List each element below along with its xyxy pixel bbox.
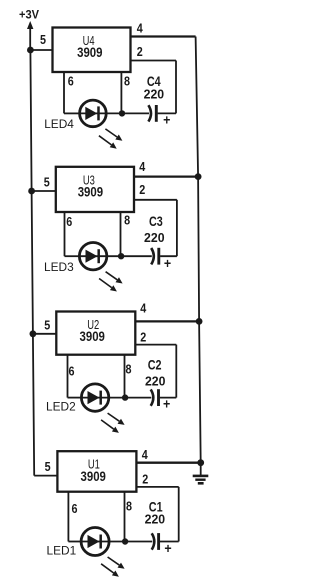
svg-text:6: 6 [66,214,72,229]
ground [193,463,209,484]
pin 8 label U1 [126,499,132,514]
LED LED1 [81,528,124,556]
pin 6 label U1 [72,501,78,516]
pin 8 label U3 [124,212,130,227]
wire pin 8 U2 to LED2/C2 node [124,355,126,398]
node LED4/pin8/C4 junction [119,110,125,116]
op-amp U1 (LM3909 IC) [57,451,136,492]
pin 8 label U2 [126,361,132,376]
C4 label [147,74,161,89]
svg-text:+: + [163,112,170,128]
svg-text:4: 4 [137,21,144,36]
pin 2 label U4 [137,44,143,59]
svg-text:5: 5 [45,459,51,474]
wire pin 4 U4 to right bus [131,35,196,37]
C4 value 220 [144,87,165,102]
node supply bus junction U4 [27,47,34,54]
node supply bus junction U2 [30,330,37,337]
svg-text:8: 8 [126,499,132,514]
svg-text:220: 220 [145,374,166,389]
wire pin 6 U3 to LED3 [65,212,80,256]
wire pin 5 U3 to supply bus [32,190,56,192]
C1 value 220 [145,512,166,527]
node right bus junction U3 [195,173,202,180]
svg-text:LED3: LED3 [44,260,74,274]
pin 6 label U3 [66,214,72,229]
wire pin 4 U1 to right bus [136,462,200,464]
capacitor C4 220uF electrolytic [121,105,176,122]
LED2 label [46,400,76,414]
svg-text:+: + [164,255,171,271]
svg-text:+: + [163,396,170,412]
pin 2 label U1 [142,472,148,487]
svg-text:8: 8 [124,212,130,227]
capacitor C3 220uF electrolytic [121,248,177,265]
svg-text:4: 4 [142,447,149,462]
C1 polarity + [164,540,171,556]
wire right bus (pin 4 common) [196,37,201,463]
svg-text:3909: 3909 [77,45,102,60]
node LED1/pin8/C1 junction [122,538,128,544]
capacitor C2 220uF electrolytic [125,389,177,406]
wire pin 4 U3 to right bus [134,175,198,177]
svg-text:LED2: LED2 [46,400,76,414]
C3 polarity + [164,255,171,271]
wire pin 8 U4 to LED4/C4 node [120,72,122,113]
LED2 emission arrows [101,413,125,433]
svg-text:2: 2 [139,182,145,197]
svg-text:+: + [164,540,171,556]
wire pin 2 U1 to C1 positive terminal [136,487,178,542]
node LED3/pin8/C3 junction [118,253,124,259]
svg-text:4: 4 [139,159,146,174]
svg-text:2: 2 [137,44,143,59]
op-amp U4 (LM3909 IC) [53,28,131,73]
+3V arrow [27,21,33,50]
svg-text:6: 6 [68,74,74,89]
pin 8 label U4 [124,74,130,89]
C2 value 220 [145,374,166,389]
svg-text:LED1: LED1 [47,544,77,558]
svg-text:3909: 3909 [80,329,105,344]
wire pin 6 U4 to LED4 [64,72,80,113]
LED3 emission arrows [99,272,123,292]
wire pin 5 U4 to supply bus [30,49,52,51]
node LED2/pin8/C2 junction [122,394,128,400]
svg-text:3909: 3909 [81,469,106,484]
wire left +3V bus [30,50,34,476]
svg-text:2: 2 [140,330,146,345]
pin 5 label U1 [45,459,51,474]
pin 4 label U3 [139,159,146,174]
svg-text:5: 5 [44,317,50,332]
node supply bus junction U3 [28,188,35,195]
LED4 emission arrows [99,129,123,149]
wire pin 2 U3 to C3 positive terminal [134,200,177,256]
pin 2 label U3 [139,182,145,197]
C1 label [149,500,163,515]
svg-text:4: 4 [140,300,147,315]
pin 4 label U4 [137,21,144,36]
svg-text:220: 220 [144,230,165,245]
node ground junction [197,459,204,466]
wire pin 8 U3 to LED3/C3 node [120,212,122,256]
op-amp U3 (LM3909 IC) [56,167,134,212]
svg-text:6: 6 [72,501,78,516]
pin 5 label U2 [44,317,50,332]
LED4 label [44,117,74,131]
wire pin 8 U1 to LED1/C1 node [124,492,126,542]
pin 5 label U3 [44,175,50,190]
LED3 label [44,260,74,274]
C2 polarity + [163,396,170,412]
pin 6 label U2 [69,363,75,378]
svg-text:6: 6 [69,363,75,378]
svg-text:C3: C3 [149,214,163,229]
pin 4 label U2 [140,300,147,315]
C2 label [148,358,162,373]
wire pin 2 U2 to C2 positive terminal [135,345,176,398]
wire pin 5 U2 to supply bus [33,333,56,335]
capacitor C1 220uF electrolytic [125,533,179,550]
svg-text:8: 8 [124,74,130,89]
svg-text:LED4: LED4 [44,117,74,131]
svg-text:+3V: +3V [19,8,39,22]
svg-text:8: 8 [126,361,132,376]
C4 polarity + [163,112,170,128]
LED LED4 [80,100,122,127]
C3 value 220 [144,230,165,245]
wire pin 2 U4 to C4 positive terminal [131,61,177,114]
wire pin 6 U2 to LED2 [68,355,82,398]
pin 4 label U1 [142,447,149,462]
C3 label [149,214,163,229]
svg-text:5: 5 [40,32,46,47]
+3V supply label [19,8,39,22]
svg-text:220: 220 [144,87,165,102]
pin 6 label U4 [68,74,74,89]
LED LED2 [81,384,124,411]
pin 5 label U4 [40,32,46,47]
LED1 label [47,544,77,558]
svg-text:220: 220 [145,512,166,527]
LED LED3 [79,243,120,270]
wire pin 5 U1 to supply bus [34,475,57,477]
LED1 emission arrows [101,557,125,577]
svg-text:2: 2 [142,472,148,487]
svg-text:3909: 3909 [78,185,103,200]
svg-text:5: 5 [44,175,50,190]
pin 2 label U2 [140,330,146,345]
wire pin 4 U2 to right bus [135,320,199,322]
op-amp U2 (LM3909 IC) [56,312,135,355]
node right bus junction U2 [196,318,203,325]
wire pin 6 U1 to LED1 [68,492,81,542]
svg-text:C2: C2 [148,358,162,373]
